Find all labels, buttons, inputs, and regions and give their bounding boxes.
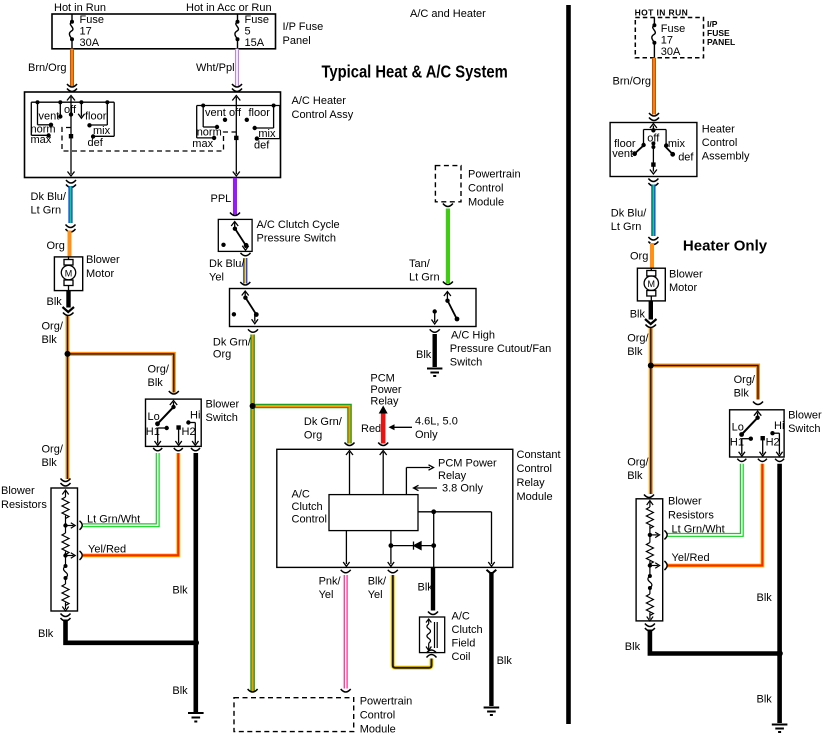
svg-text:Assembly: Assembly — [702, 151, 750, 163]
wire Blk below motor right — [649, 301, 653, 320]
connector below PCM top — [443, 204, 453, 207]
svg-text:Motor: Motor — [669, 282, 697, 294]
svg-text:vent: vent — [612, 148, 633, 160]
connectors at resistor taps right — [664, 530, 667, 570]
svg-text:Lo: Lo — [148, 411, 160, 423]
svg-text:Switch: Switch — [788, 423, 820, 435]
cycle switch internals — [231, 222, 249, 251]
wire Dk Blu/Yel — [243, 258, 247, 284]
svg-text:Org/: Org/ — [42, 444, 64, 456]
svg-text:Blk: Blk — [38, 628, 54, 640]
A/C clutch field coil L1 box — [420, 617, 445, 653]
wire Lt Grn/Wht (switch H1 to resistors) — [83, 453, 158, 525]
svg-text:Wht/Ppl: Wht/Ppl — [196, 62, 235, 74]
connector below CCRM right blk — [487, 570, 497, 574]
svg-text:M: M — [65, 268, 73, 278]
svg-text:Lt Grn: Lt Grn — [31, 205, 62, 217]
wire Dk Blu/Lt Grn right — [651, 185, 655, 237]
connector above field coil — [428, 612, 438, 615]
powertrain control module box top (dashed) — [435, 166, 461, 202]
svg-text:Resistors: Resistors — [668, 510, 714, 522]
svg-text:Blk: Blk — [47, 296, 63, 308]
wire Org/Blk branch right — [651, 366, 758, 400]
junction node org/blk redraw — [65, 351, 71, 357]
svg-text:def: def — [254, 140, 270, 152]
svg-text:Brn/Org: Brn/Org — [613, 76, 652, 88]
junction node blk redraw — [193, 640, 199, 646]
svg-text:Org: Org — [630, 251, 648, 263]
wire Blk right to ground — [489, 572, 493, 706]
svg-text:Typical Heat & A/C System: Typical Heat & A/C System — [322, 62, 508, 82]
svg-text:Lo: Lo — [732, 422, 744, 434]
divider line — [566, 5, 571, 724]
svg-text:max: max — [31, 134, 52, 146]
connector org — [66, 225, 76, 233]
junction node dk grn/org redraw — [250, 403, 256, 409]
svg-text:A/C High: A/C High — [451, 330, 495, 342]
svg-text:3.8 Only: 3.8 Only — [442, 483, 483, 495]
svg-text:Blk: Blk — [418, 582, 434, 594]
blower motor right symbol — [644, 268, 658, 301]
svg-text:Lt Grn: Lt Grn — [611, 221, 642, 233]
svg-text:Blk: Blk — [757, 694, 773, 706]
svg-text:Yel/Red: Yel/Red — [672, 552, 710, 564]
svg-text:def: def — [678, 152, 694, 164]
wire Org/Blk branch to blower switch — [68, 354, 174, 393]
wire Wht/Ppl (fuse 5 to control assy) — [235, 49, 239, 86]
connector above PCM bottom right — [341, 689, 351, 692]
ground G3 — [484, 708, 500, 716]
wire Blk down to ground — [194, 643, 199, 712]
svg-text:floor: floor — [85, 111, 107, 123]
svg-text:PCM Power: PCM Power — [438, 458, 497, 470]
svg-text:Blower: Blower — [1, 485, 35, 497]
svg-text:Motor: Motor — [86, 268, 114, 280]
svg-text:mix: mix — [258, 128, 276, 140]
connector at blower switch right input — [753, 402, 763, 405]
svg-text:norm: norm — [197, 127, 222, 139]
svg-text:Org: Org — [304, 430, 322, 442]
svg-text:Blk: Blk — [172, 685, 188, 697]
svg-text:PANEL: PANEL — [707, 37, 735, 47]
svg-text:Org/: Org/ — [627, 457, 649, 469]
wire Blk from resistors right — [650, 630, 780, 654]
svg-text:vent: vent — [205, 107, 226, 119]
heater control internals — [635, 124, 673, 175]
field coil symbol — [426, 619, 437, 651]
svg-text:Pressure Cutout/Fan: Pressure Cutout/Fan — [450, 343, 552, 355]
svg-text:Control: Control — [702, 137, 737, 149]
connector blk/orgblk — [63, 307, 75, 312]
svg-text:Control: Control — [292, 514, 327, 526]
wire PPL (control assy to cycle switch) — [233, 178, 237, 215]
svg-text:Org: Org — [213, 349, 231, 361]
junction node org/blk right redraw — [648, 363, 654, 369]
svg-text:Red: Red — [361, 423, 381, 435]
svg-text:Pressure Switch: Pressure Switch — [257, 233, 336, 245]
svg-text:Fuse: Fuse — [80, 14, 104, 26]
svg-text:Blk: Blk — [172, 585, 188, 597]
connectors at resistor taps — [80, 521, 83, 560]
svg-text:Blk: Blk — [625, 641, 641, 653]
svg-text:Hot in Run: Hot in Run — [54, 2, 106, 14]
svg-text:Control: Control — [517, 463, 552, 475]
wire Dk Blu/Lt Grn — [68, 186, 72, 223]
connector at high pressure switch right input — [443, 282, 453, 285]
svg-text:H1: H1 — [730, 437, 744, 449]
svg-text:Blower: Blower — [788, 410, 822, 422]
high pressure switch left contacts — [242, 291, 258, 324]
svg-text:Module: Module — [517, 491, 553, 503]
powertrain control module box bottom (dashed) — [234, 698, 354, 732]
fuse F17 symbol — [69, 14, 73, 49]
svg-text:Blk: Blk — [497, 655, 513, 667]
svg-text:Dk Blu/: Dk Blu/ — [611, 208, 647, 220]
svg-text:Relay: Relay — [438, 470, 467, 482]
svg-text:floor: floor — [249, 107, 271, 119]
wire Blk from resistors to ground — [66, 620, 196, 643]
svg-text:Blower: Blower — [206, 399, 240, 411]
svg-text:Panel: Panel — [283, 35, 311, 47]
connector at CCRM input red — [378, 443, 388, 446]
svg-text:PPL: PPL — [211, 193, 232, 205]
wire Blk (switch Hi to ground) — [194, 453, 199, 643]
blower switch S2 box — [730, 410, 785, 457]
wire Dk Grn/Org branch to CCRM — [253, 406, 350, 444]
blower motor M2 box — [637, 268, 665, 301]
wire Org — [68, 231, 72, 257]
svg-text:Resistors: Resistors — [1, 499, 47, 511]
svg-text:A/C: A/C — [452, 611, 470, 623]
blower resistors R2 box — [636, 499, 663, 621]
svg-text:Dk Grn/: Dk Grn/ — [304, 416, 343, 428]
connector at high pressure switch input — [240, 282, 250, 285]
I/P fuse panel box right (dashed) — [635, 18, 703, 58]
fuse F5 symbol — [235, 14, 239, 49]
connector org right — [648, 237, 658, 245]
svg-text:Blk: Blk — [416, 349, 432, 361]
svg-text:HOT IN RUN: HOT IN RUN — [635, 8, 689, 18]
svg-text:Fuse: Fuse — [245, 14, 269, 26]
connector below high pressure switch right output — [430, 329, 440, 332]
wire Red (to PCM power relay) with arrow — [381, 411, 386, 444]
svg-text:mix: mix — [93, 125, 111, 137]
svg-text:Blk: Blk — [630, 309, 646, 321]
svg-text:Org/: Org/ — [42, 321, 64, 333]
svg-text:Module: Module — [468, 197, 504, 209]
svg-text:4.6L, 5.0: 4.6L, 5.0 — [415, 416, 458, 428]
connector below heater control — [648, 179, 658, 187]
svg-text:Only: Only — [415, 429, 438, 441]
svg-text:Blk: Blk — [757, 592, 773, 604]
svg-text:Switch: Switch — [450, 357, 482, 369]
heater control assembly box — [610, 123, 697, 177]
svg-text:Relay: Relay — [370, 396, 399, 408]
ground G4 — [772, 725, 788, 733]
connector below field coil — [427, 650, 437, 658]
wire Brn/Org (fuse 17 to control assy) — [70, 49, 74, 86]
svg-text:30A: 30A — [80, 37, 100, 49]
svg-text:Powertrain: Powertrain — [468, 169, 521, 181]
svg-text:Control Assy: Control Assy — [292, 109, 354, 121]
A/C high pressure cutout/fan switch box — [230, 289, 477, 327]
wire Lt Grn/Wht right — [668, 464, 742, 535]
blower motor M1 box — [54, 257, 82, 291]
svg-text:Power: Power — [370, 384, 402, 396]
connector below high pressure switch left output — [248, 329, 258, 332]
svg-text:Yel: Yel — [209, 272, 224, 284]
connector at blower switch input — [169, 391, 179, 394]
wire Blk right switch to ground — [777, 464, 782, 654]
junction nodes in CCRM — [431, 509, 436, 514]
blower resistors R1 box — [51, 488, 78, 611]
svg-text:Lt Grn/Wht: Lt Grn/Wht — [672, 524, 725, 536]
svg-text:Blk: Blk — [148, 377, 164, 389]
wire Pnk/Yel (to PCM) — [344, 575, 348, 689]
svg-text:def: def — [88, 137, 104, 149]
connector below resistors — [61, 614, 71, 622]
connector at cycle switch input — [230, 213, 240, 216]
wire Blk down to ground right — [777, 654, 782, 724]
svg-text:Dk Blu/: Dk Blu/ — [31, 191, 67, 203]
connector at heater control input — [649, 113, 659, 121]
resistor element right — [646, 501, 659, 622]
blower switch internals — [155, 401, 199, 446]
svg-text:5: 5 — [245, 26, 251, 38]
svg-text:max: max — [192, 138, 213, 150]
svg-text:Blower: Blower — [668, 496, 702, 508]
svg-text:Heater: Heater — [702, 124, 735, 136]
wire Blk below motor — [66, 291, 70, 308]
high pressure switch right contacts — [432, 292, 458, 325]
svg-text:H2: H2 — [182, 426, 196, 438]
svg-text:Blk: Blk — [42, 457, 58, 469]
connector blk/orgblk right — [645, 319, 657, 324]
resistor element — [62, 490, 75, 611]
ground G1 — [188, 713, 204, 722]
svg-text:off: off — [64, 104, 77, 116]
svg-text:Org: Org — [47, 240, 65, 252]
svg-text:Blk/: Blk/ — [368, 576, 387, 588]
wire Org right — [650, 243, 654, 268]
wire Org/Blk right upper — [649, 328, 653, 494]
svg-text:Field: Field — [452, 638, 476, 650]
wire Blk to ground mid — [433, 334, 437, 367]
connector at CCRM input left — [345, 443, 355, 446]
svg-text:Yel: Yel — [368, 589, 383, 601]
connector at control assy input right — [232, 84, 242, 92]
svg-text:Constant: Constant — [517, 449, 561, 461]
switch 1 contact dots — [36, 100, 110, 139]
connector below resistors right — [645, 624, 655, 632]
svg-text:I/P Fuse: I/P Fuse — [283, 21, 324, 33]
svg-text:Yel/Red: Yel/Red — [88, 544, 126, 556]
svg-text:Brn/Org: Brn/Org — [28, 62, 67, 74]
fuse F17 right symbol — [652, 18, 656, 58]
ground G2 — [427, 369, 442, 377]
wire Dk Grn/Org (pressure switch to CCRM and PCM) — [250, 335, 255, 693]
svg-text:Lt Grn: Lt Grn — [409, 272, 440, 284]
svg-text:off: off — [229, 107, 242, 119]
svg-text:off: off — [647, 133, 660, 145]
CCRM internal wiring — [343, 451, 495, 568]
blower switch right internals — [739, 411, 783, 456]
junction node blk right redraw — [776, 650, 782, 656]
wire Brn/Org right — [652, 58, 656, 115]
annotation arrow 4.6L 5.0 Only — [391, 426, 413, 428]
A/C clutch cycle pressure switch box — [218, 219, 252, 251]
svg-text:17: 17 — [661, 35, 673, 47]
I/P fuse panel box — [52, 14, 276, 49]
svg-text:Pnk/: Pnk/ — [319, 576, 342, 588]
svg-text:Org/: Org/ — [148, 364, 170, 376]
wire Yel/Red right — [668, 464, 763, 566]
svg-text:PCM: PCM — [370, 373, 394, 385]
svg-text:Blower: Blower — [86, 254, 120, 266]
connectors below blower switch right — [737, 459, 784, 462]
connector below control assy left — [66, 180, 76, 188]
mechanical link dashed — [62, 128, 236, 152]
svg-text:Yel: Yel — [319, 589, 334, 601]
svg-text:Clutch: Clutch — [292, 501, 323, 513]
svg-text:A/C: A/C — [292, 489, 310, 501]
svg-text:Org/: Org/ — [627, 333, 649, 345]
svg-text:Relay: Relay — [517, 477, 546, 489]
svg-text:Blk: Blk — [42, 334, 58, 346]
svg-text:Blk: Blk — [627, 346, 643, 358]
svg-text:Org/: Org/ — [734, 374, 756, 386]
junction node blk — [193, 640, 199, 646]
constant control relay module box — [277, 449, 513, 567]
svg-text:Coil: Coil — [452, 651, 471, 663]
junction node org/blk right — [648, 363, 653, 368]
wire Blk (CCRM to field coil) — [431, 567, 435, 610]
A/C heater control assy box — [25, 92, 281, 178]
svg-text:Blk: Blk — [627, 470, 643, 482]
svg-text:Hot in Acc or Run: Hot in Acc or Run — [186, 2, 272, 14]
svg-text:Clutch: Clutch — [452, 624, 483, 636]
svg-text:Control: Control — [468, 183, 503, 195]
wire Yel/Red (switch H2 to resistors) — [83, 453, 178, 555]
svg-text:Dk Grn/: Dk Grn/ — [213, 337, 252, 349]
wire Tan/Lt Grn — [446, 209, 450, 284]
mode switch 1 (fan) wiring — [31, 96, 114, 177]
blower motor symbol — [61, 257, 75, 291]
svg-text:H2: H2 — [766, 437, 780, 449]
svg-text:Heater Only: Heater Only — [683, 237, 768, 254]
wire Blk/Yel (to field coil) — [393, 575, 432, 668]
svg-text:Hi: Hi — [190, 410, 200, 422]
svg-text:A/C and Heater: A/C and Heater — [410, 8, 486, 20]
connector at control assy input left — [67, 84, 77, 92]
svg-text:Blk: Blk — [734, 388, 750, 400]
connector above resistors right — [644, 495, 654, 498]
junction node dk grn/org — [250, 403, 255, 408]
svg-text:30A: 30A — [661, 46, 681, 58]
svg-text:Module: Module — [360, 724, 396, 736]
connectors below CCRM — [341, 570, 351, 573]
svg-text:17: 17 — [80, 26, 92, 38]
svg-text:vent: vent — [39, 111, 60, 123]
mode switch 2 (temp) wiring — [197, 96, 280, 177]
svg-text:Switch: Switch — [206, 412, 238, 424]
svg-text:Powertrain: Powertrain — [360, 696, 413, 708]
wire Org/Blk upper — [66, 316, 70, 479]
svg-text:Dk Blu/: Dk Blu/ — [209, 258, 245, 270]
junction node blk right — [777, 651, 783, 657]
connector below cycle switch — [241, 253, 251, 256]
A/C clutch control inner box — [329, 495, 418, 531]
connector above PCM bottom left — [248, 689, 258, 692]
switch 2 contact dots — [201, 104, 275, 141]
svg-text:H1: H1 — [146, 426, 160, 438]
connectors below blower switch — [153, 448, 200, 451]
svg-text:A/C Clutch Cycle: A/C Clutch Cycle — [257, 219, 340, 231]
svg-text:15A: 15A — [245, 37, 265, 49]
blower switch S1 box — [146, 399, 202, 446]
svg-text:Hi: Hi — [774, 420, 784, 432]
connector above left resistors — [61, 479, 71, 487]
svg-text:M: M — [648, 279, 656, 289]
svg-text:Fuse: Fuse — [661, 23, 685, 35]
svg-text:mix: mix — [668, 138, 686, 150]
svg-text:Control: Control — [360, 710, 395, 722]
svg-text:Lt Grn/Wht: Lt Grn/Wht — [87, 514, 140, 526]
svg-text:Blower: Blower — [669, 269, 703, 281]
svg-text:A/C Heater: A/C Heater — [292, 95, 347, 107]
svg-text:Tan/: Tan/ — [409, 258, 431, 270]
junction node org/blk — [65, 351, 70, 356]
